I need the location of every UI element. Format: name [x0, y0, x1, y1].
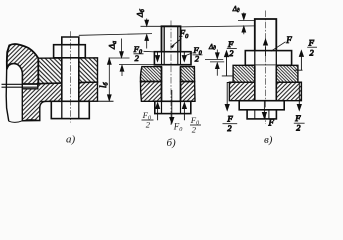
bottom nut a — [51, 101, 89, 118]
plates b: upper left — [140, 67, 161, 82]
F/2 bottom-right down arrow — [294, 82, 305, 132]
svg-text:в): в) — [264, 134, 273, 146]
bolt hole white — [62, 58, 79, 101]
stud top a — [62, 37, 79, 56]
plates b: lower right — [181, 82, 196, 102]
plates b: lower left — [140, 82, 161, 102]
F label with leader v — [271, 35, 293, 52]
svg-text:б): б) — [167, 137, 177, 149]
joint gap double lines left — [2, 84, 38, 87]
svg-text:2: 2 — [296, 122, 301, 132]
label F0/2 bottom-right — [190, 115, 201, 134]
svg-text:F: F — [285, 35, 292, 45]
datum line from b stud top to v — [181, 26, 256, 27]
svg-text:F: F — [268, 117, 275, 127]
head v — [245, 51, 291, 66]
dimension l-b (grip length) — [98, 58, 111, 100]
bearing force arrows down on washer b — [155, 52, 186, 61]
plates b: upper right — [181, 67, 195, 82]
svg-text:2: 2 — [229, 48, 234, 58]
clamped flange (part 2) hatched backslash — [38, 58, 97, 84]
bolt hole walls b — [162, 67, 181, 102]
svg-text:2: 2 — [192, 125, 197, 135]
svg-text:F: F — [308, 38, 315, 48]
force F in bolt up arrow — [263, 39, 267, 56]
bracket body (part 1) hatched — [7, 44, 39, 84]
dimension Delta-b — [136, 8, 149, 48]
datum line from stud top a — [79, 34, 152, 36]
force F0/2 upper-right label with leader b — [186, 45, 202, 64]
stud top extension line left — [238, 19, 255, 21]
bolt hole walls — [62, 58, 79, 101]
plates v: lower — [229, 82, 301, 101]
F/2 bottom-left down arrow — [223, 83, 238, 134]
svg-text:2: 2 — [146, 120, 151, 130]
label F0/2 bottom-left — [142, 110, 154, 130]
svg-text:2: 2 — [135, 53, 140, 63]
bolt hole white v — [255, 65, 276, 100]
dimension Delta-d middle (between b and v) — [205, 43, 224, 76]
centerline a — [69, 31, 71, 122]
extension line left of shank top — [141, 25, 162, 27]
force F0 top label with leader — [171, 29, 190, 48]
washer plate b — [154, 52, 191, 65]
centerline b — [170, 21, 172, 126]
centerline v — [265, 11, 267, 125]
svg-text:2: 2 — [195, 54, 200, 64]
svg-text:а): а) — [66, 134, 76, 146]
support block hatched body — [22, 82, 97, 121]
plates v: upper — [233, 65, 298, 82]
dimension Delta-d at v top — [232, 5, 246, 34]
break wavy line bottom left — [9, 120, 40, 123]
F/2 upper-right of v — [294, 38, 317, 71]
bolt shank b — [162, 26, 181, 51]
washer v bottom — [239, 101, 284, 110]
force F0/2 upper-left label with leader — [133, 44, 155, 63]
white pocket column with dome top — [6, 62, 22, 122]
nut b — [155, 101, 191, 113]
stud v — [255, 19, 276, 51]
bottom edge lines of support at nut — [40, 100, 114, 102]
bracket outer left edge — [6, 45, 9, 121]
nut a — [54, 45, 86, 58]
dimension Delta-a — [107, 39, 155, 77]
F bottom-center down arrow — [262, 101, 274, 127]
nut v bottom — [247, 110, 276, 119]
bolt lines through washer b — [162, 52, 181, 65]
svg-text:2: 2 — [227, 123, 232, 133]
bottom arrows b: F0/2 up left-right, F0 down center — [156, 90, 187, 123]
F/2 upper-left of v — [222, 39, 237, 76]
